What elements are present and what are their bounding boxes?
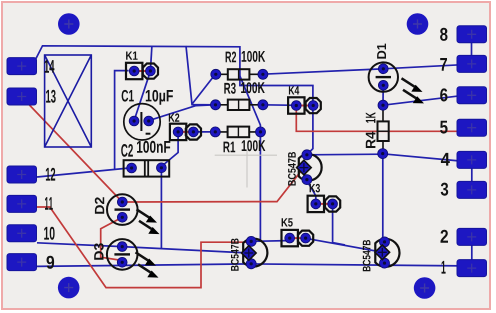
wire R4 top to pad6: [383, 96, 460, 105]
pad 14: [7, 58, 54, 75]
red trace D2 bottom to D3 bottom: [101, 217, 123, 260]
pad 7: [440, 55, 486, 72]
pad 11: [7, 195, 53, 212]
mounting hole top-left: [58, 13, 80, 35]
pad 9: [7, 254, 54, 271]
wire pad10 to D3 top: [37, 243, 122, 247]
diode D1: [369, 44, 424, 104]
capacitor C1: [122, 90, 173, 140]
mounting hole top-right: [407, 13, 429, 35]
wire D3 top to Q3L center: [122, 247, 249, 253]
wire net pad14 top rail: [36, 46, 313, 132]
wire R4 bottom down to Q3R top: [382, 154, 384, 242]
connector K3: [308, 184, 341, 212]
capacitor C2: [121, 141, 170, 177]
wire R1 right down to Q3L top and K5 pin1: [251, 132, 287, 241]
transistor Q3R bottom-right BC547B: [363, 237, 400, 271]
wire pad2 to pad1: [471, 243, 473, 263]
wire R3 right to K4 pin1: [263, 104, 296, 107]
wire R4 bottom to pad4: [383, 154, 460, 161]
pad 6: [440, 87, 486, 104]
wire K2 pin2 to R1 left: [193, 131, 215, 133]
pad 5: [440, 119, 486, 136]
resistor R2: [211, 51, 268, 80]
connector K2: [169, 113, 201, 140]
connector K4: [288, 86, 321, 114]
red link K2: [178, 131, 193, 133]
transistor Q2 middle BC547B: [288, 150, 322, 186]
wire pad8 to pad7: [471, 40, 473, 58]
mounting hole bottom-left: [58, 277, 80, 299]
wire R2 right to D1 top: [263, 69, 383, 74]
wire K2 pin1 to C2 right and down to Q3L line: [161, 137, 178, 249]
pad 1: [442, 260, 487, 277]
pad 8: [440, 26, 486, 43]
connector K1: [126, 52, 158, 80]
mounting hole bottom-right: [414, 277, 436, 299]
wire Q2 bottom to K3 pin1: [307, 181, 316, 204]
red trace K4 pin1 to pad5: [296, 108, 462, 131]
red trace pad13 to D2 top: [28, 103, 123, 202]
pad 4: [441, 151, 487, 168]
resistor R4: [366, 100, 389, 158]
red link K5: [290, 237, 306, 239]
origin cross marker: [215, 150, 277, 188]
pad 10: [7, 225, 55, 242]
red trace pad11 to Q3L top: [36, 207, 249, 288]
wire D1 bottom to R4 top: [382, 85, 384, 105]
wire Q2 top to R4 bottom: [307, 153, 383, 156]
wire D1 top to pad7: [383, 65, 460, 69]
pad 2: [441, 228, 487, 245]
red link K4: [296, 105, 313, 107]
transistor Q3L bottom-left BC547B: [231, 236, 267, 270]
diode D2: [95, 194, 160, 234]
wire pad9 along bottom to Q3L bottom to pad1: [37, 264, 462, 267]
resistor R1: [210, 127, 265, 153]
wire net pad12 to C2 and K1 pin1: [37, 71, 131, 177]
diode D3: [94, 239, 158, 278]
wire K3 pin2 down to K5 net: [333, 208, 345, 245]
crossed box relay footprint: [45, 55, 92, 147]
wire K5 pin2 to Q3R center: [306, 238, 383, 252]
pad 3: [441, 181, 487, 198]
resistor R3: [211, 82, 268, 110]
pad 13: [7, 88, 56, 105]
red link K3: [316, 203, 333, 205]
pad 12: [7, 166, 55, 183]
wire pad4 to pad3: [471, 165, 473, 184]
connector K5: [282, 218, 314, 246]
red link K1: [134, 70, 150, 72]
red trace D2 top to Q2 center: [122, 168, 303, 202]
wire K4 pin2 down to Q2 top: [307, 107, 313, 155]
